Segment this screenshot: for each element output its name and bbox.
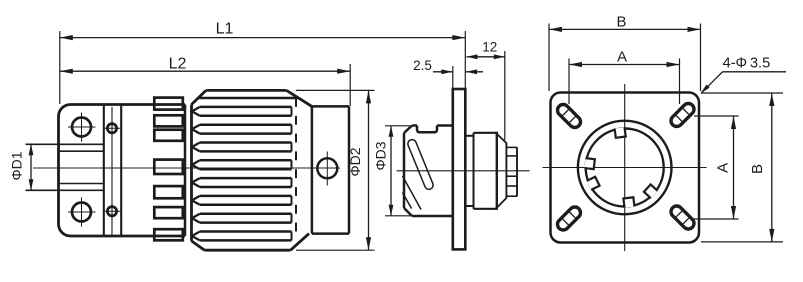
svg-text:ΦD3: ΦD3 xyxy=(373,141,389,170)
svg-text:A: A xyxy=(617,49,627,66)
svg-text:B: B xyxy=(749,164,766,174)
svg-text:L2: L2 xyxy=(169,56,187,73)
svg-text:ΦD2: ΦD2 xyxy=(347,147,363,176)
svg-text:ΦD1: ΦD1 xyxy=(9,151,25,180)
svg-text:B: B xyxy=(616,14,626,31)
svg-text:2.5: 2.5 xyxy=(413,58,432,73)
svg-text:4-Φ 3.5: 4-Φ 3.5 xyxy=(723,56,771,72)
svg-text:A: A xyxy=(715,163,732,173)
svg-text:12: 12 xyxy=(482,40,497,55)
svg-text:L1: L1 xyxy=(216,21,234,38)
